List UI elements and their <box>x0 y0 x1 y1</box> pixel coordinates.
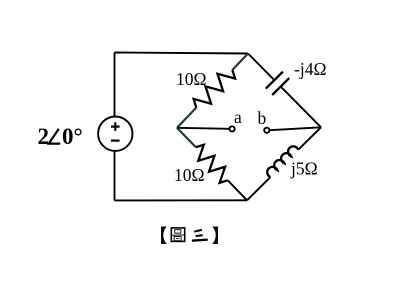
svg-text:10Ω: 10Ω <box>174 165 205 185</box>
svg-text:j5Ω: j5Ω <box>290 159 318 179</box>
svg-text:b: b <box>258 108 267 128</box>
svg-text:2: 2 <box>38 124 50 149</box>
svg-text:10Ω: 10Ω <box>176 69 207 89</box>
svg-text:-j4Ω: -j4Ω <box>294 59 326 79</box>
svg-text:a: a <box>234 107 242 127</box>
svg-text:0°: 0° <box>62 124 83 149</box>
